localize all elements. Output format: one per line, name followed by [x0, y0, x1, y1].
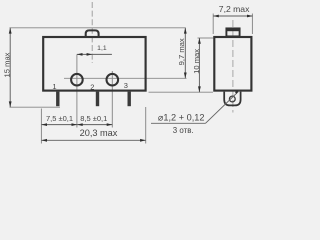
svg-text:1: 1: [52, 82, 56, 91]
svg-text:1,1: 1,1: [97, 45, 107, 52]
svg-text:10 max: 10 max: [192, 49, 201, 74]
svg-text:8,5 ±0,1: 8,5 ±0,1: [80, 114, 107, 123]
svg-text:15 max: 15 max: [2, 52, 11, 77]
svg-text:3: 3: [124, 81, 128, 90]
svg-text:2: 2: [90, 82, 94, 91]
svg-text:3 отв.: 3 отв.: [173, 126, 194, 135]
svg-text:7,2 max: 7,2 max: [219, 4, 250, 14]
svg-text:7,5 ±0,1: 7,5 ±0,1: [46, 114, 73, 123]
svg-text:⌀1,2 + 0,12: ⌀1,2 + 0,12: [158, 113, 205, 123]
svg-text:9,7 max: 9,7 max: [177, 38, 186, 65]
svg-text:20,3 max: 20,3 max: [80, 128, 118, 138]
